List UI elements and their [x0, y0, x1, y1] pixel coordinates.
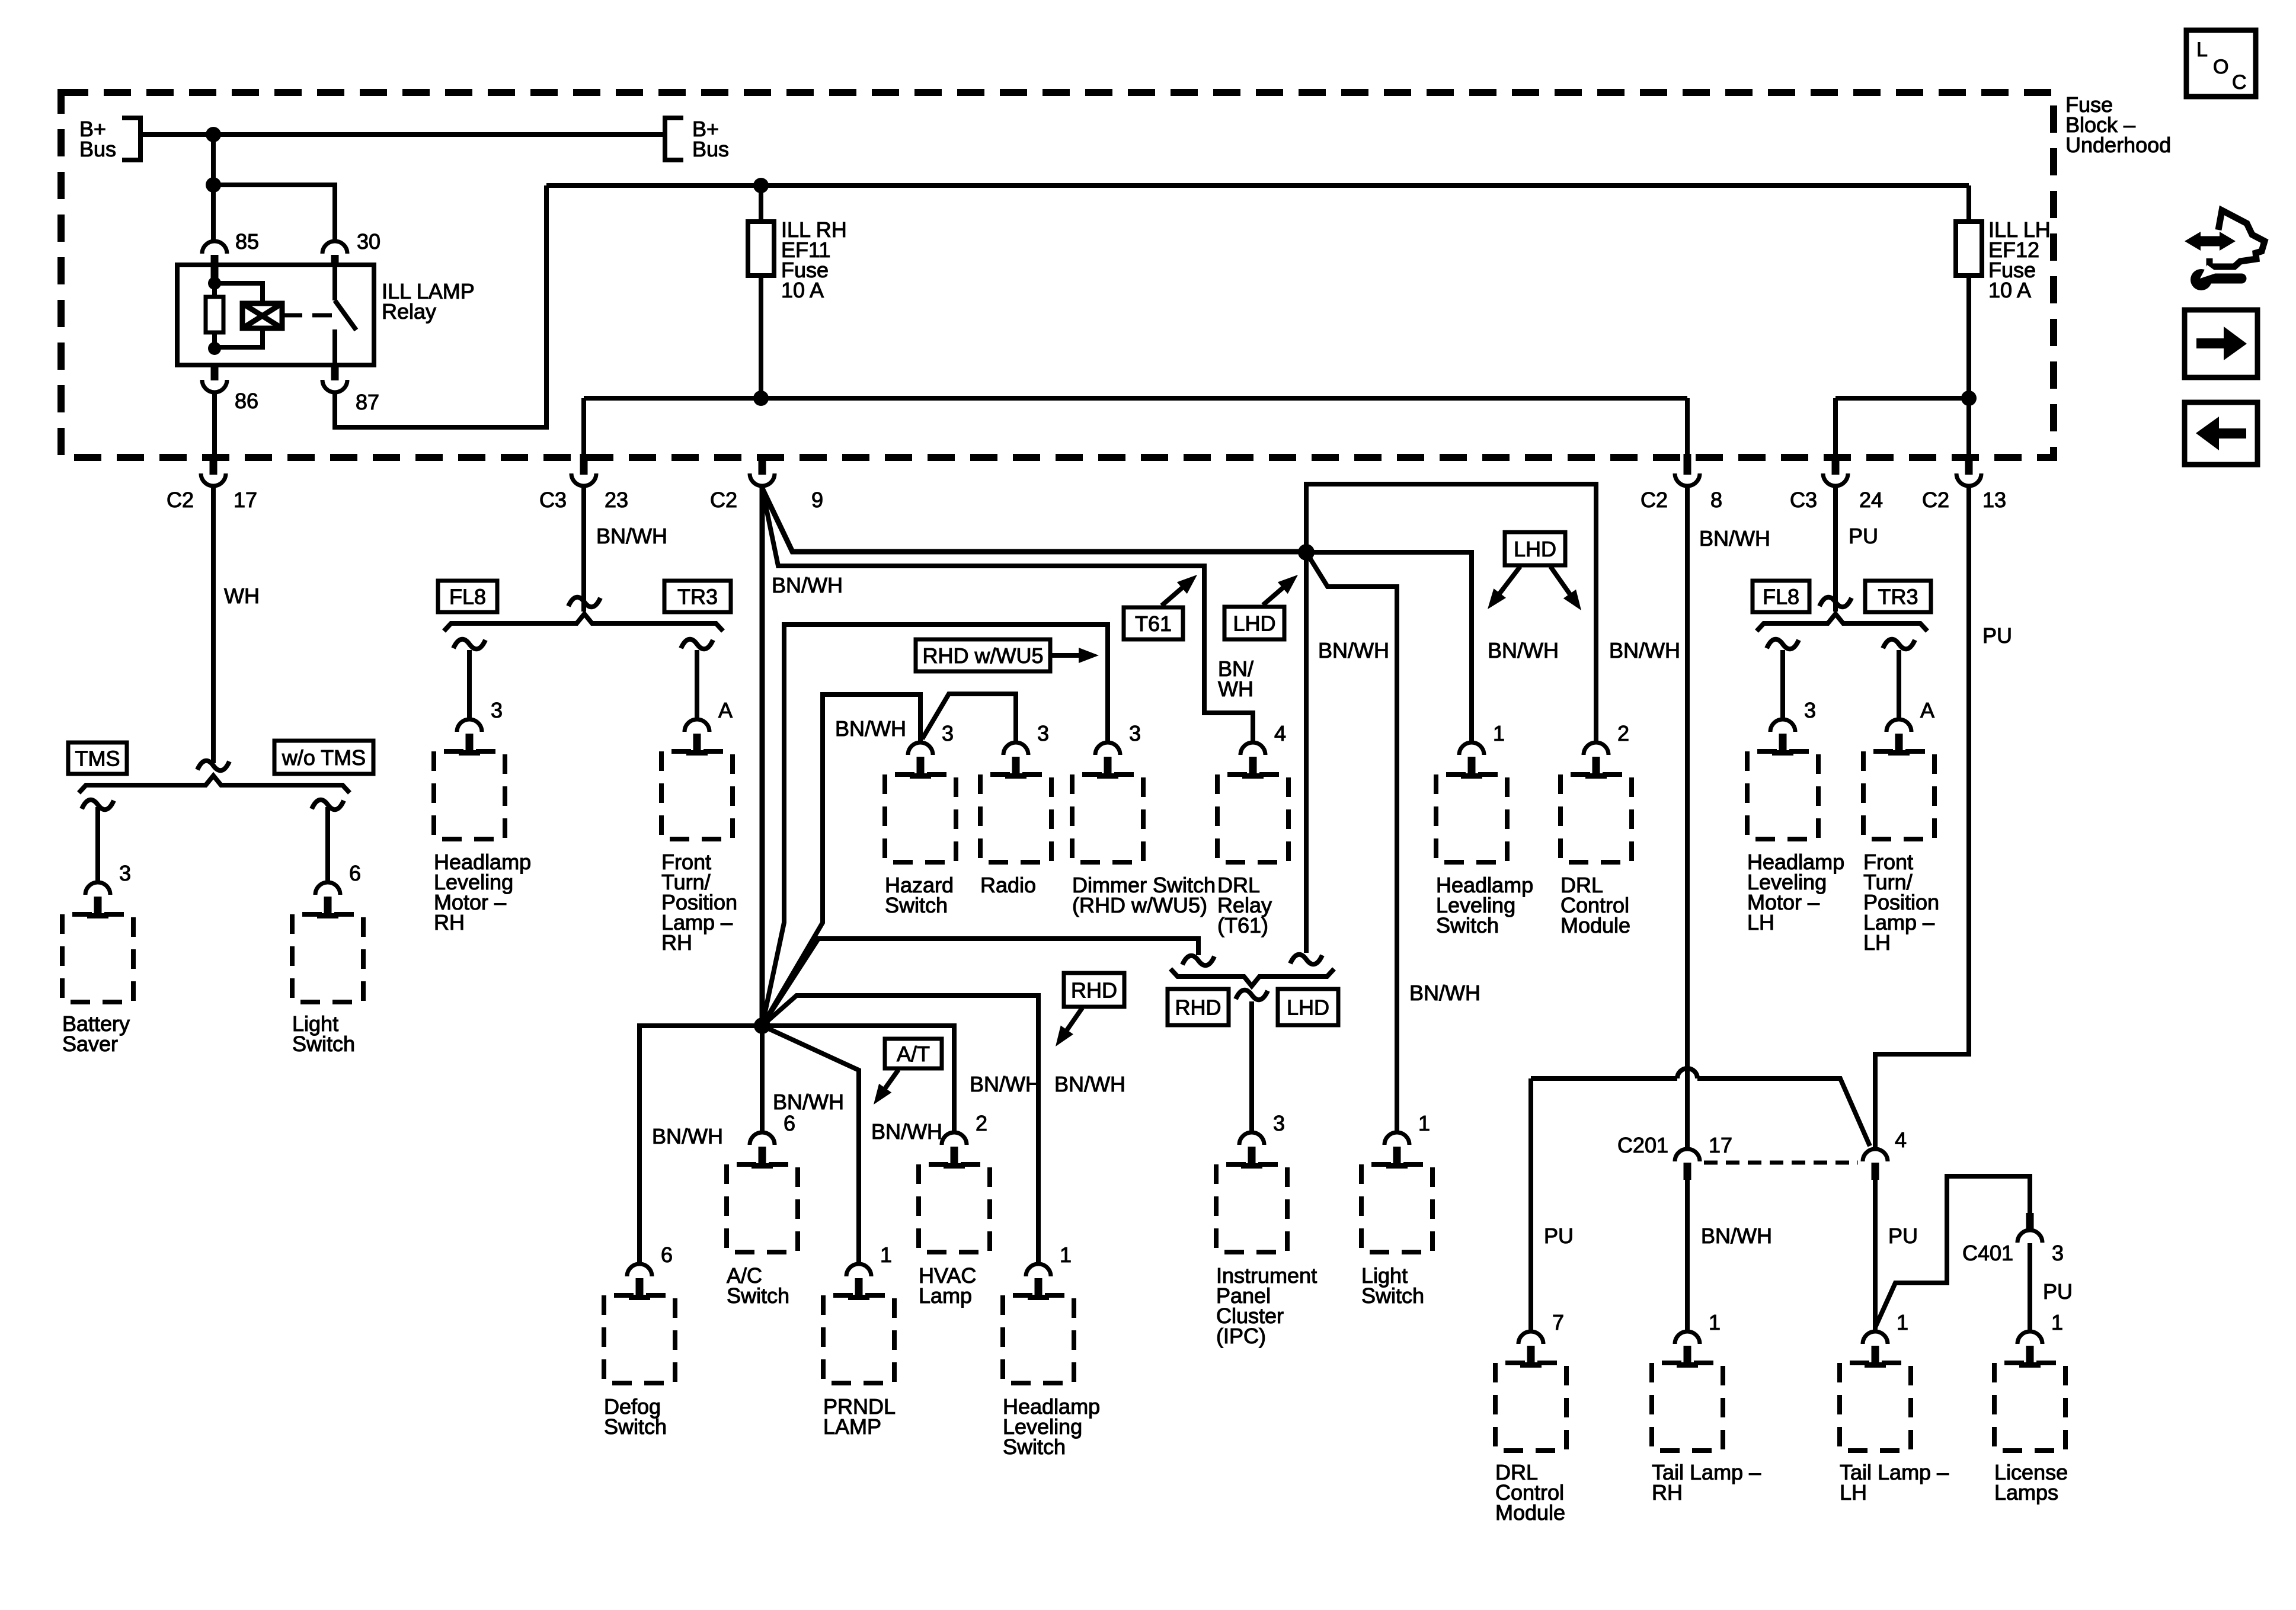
svg-text:A: A	[1920, 698, 1934, 722]
DRL control module bottom box	[1495, 1363, 1566, 1451]
connector C2 pin 17	[210, 454, 218, 475]
svg-text:3: 3	[119, 861, 131, 885]
svg-text:(T61): (T61)	[1217, 913, 1268, 937]
fuse ILL LH EF12 10A	[1966, 185, 1971, 222]
svg-text:3: 3	[2052, 1241, 2064, 1265]
node junction B+ to relay	[206, 127, 221, 142]
arrow box left	[2185, 402, 2257, 465]
svg-text:RHD: RHD	[1071, 978, 1117, 1003]
svg-text:Module: Module	[1560, 913, 1630, 937]
connector PRNDL lamp pin 1	[846, 1264, 871, 1276]
dashed link C201 to tail lamp LH pin 4	[1704, 1161, 1858, 1165]
svg-text:LH: LH	[1840, 1480, 1867, 1505]
connector light switch pin 1	[1384, 1132, 1409, 1145]
defog switch box	[604, 1295, 675, 1383]
wire license lamps branch	[1875, 1176, 2030, 1327]
relay mechanical link dashed	[282, 313, 332, 318]
connector radio pin 3	[1003, 742, 1028, 755]
wire junction to headlamp leveling switch pin 1	[1306, 552, 1472, 742]
svg-text:Saver: Saver	[62, 1032, 118, 1056]
connector C2 pin 13	[1965, 454, 1973, 475]
connector front turn position lamp RH pin A	[685, 719, 709, 732]
wire star to HVAC lamp	[762, 1026, 954, 1132]
svg-text:C2: C2	[1922, 488, 1949, 512]
svg-text:C3: C3	[1790, 488, 1817, 512]
connector tail lamp LH pin 1	[1863, 1331, 1888, 1344]
svg-text:Radio: Radio	[980, 873, 1036, 897]
wire to front turn lamp RH pin A	[695, 650, 699, 719]
svg-text:LH: LH	[1863, 930, 1891, 955]
connector A/C switch pin 6	[750, 1132, 775, 1145]
wire to front turn lamp LH pin A	[1897, 650, 1901, 719]
relay ILL LAMP box	[177, 265, 374, 365]
svg-text:PU: PU	[1888, 1224, 1918, 1248]
wire to motor LH pin 3	[1780, 650, 1785, 719]
relay coil node lower	[208, 342, 221, 355]
svg-text:1: 1	[1709, 1310, 1721, 1334]
relay ILL LAMP pin 30	[322, 241, 347, 254]
svg-text:3: 3	[1273, 1111, 1285, 1135]
wire EF12 to C2-13	[1966, 398, 1971, 455]
svg-text:3: 3	[942, 721, 954, 745]
svg-text:8: 8	[1710, 488, 1722, 512]
svg-text:TR3: TR3	[1878, 585, 1918, 609]
svg-text:1: 1	[1493, 721, 1505, 745]
curl output front turn lamp RH	[681, 639, 713, 649]
svg-text:1: 1	[2051, 1310, 2063, 1334]
brace split TMS options	[79, 776, 350, 793]
svg-text:3: 3	[1129, 721, 1141, 745]
vehicle wiring icon	[2185, 210, 2265, 290]
svg-text:w/o TMS: w/o TMS	[282, 745, 366, 770]
star junction node	[754, 1017, 770, 1034]
svg-text:PU: PU	[1544, 1224, 1574, 1248]
wire to instrument panel cluster pin 3	[1249, 1001, 1254, 1132]
svg-text:13: 13	[1982, 488, 2006, 512]
connector C2 pin 9	[759, 454, 766, 475]
svg-text:BN/WH: BN/WH	[835, 716, 906, 741]
connector headlamp leveling switch bottom pin 1	[1026, 1264, 1051, 1276]
connector C3 pin 23	[580, 454, 588, 475]
curl IPC output	[1236, 990, 1268, 1000]
dimmer switch box	[1072, 774, 1143, 862]
LOC reference box	[2186, 30, 2256, 97]
DRL control module box	[1560, 774, 1632, 862]
svg-text:6: 6	[661, 1243, 673, 1267]
callout RHD with arrow bottom	[1064, 973, 1124, 1007]
wire WH from C2-17	[211, 486, 216, 763]
headlamp leveling motor LH box	[1747, 751, 1818, 839]
svg-text:4: 4	[1895, 1128, 1907, 1152]
svg-text:1: 1	[1060, 1243, 1072, 1267]
wire B+ down to relay pin 85	[211, 135, 216, 241]
svg-text:BN/WH: BN/WH	[1488, 638, 1559, 662]
connector headlamp leveling switch pin 1	[1459, 742, 1484, 755]
wire PU from C2-13 to tail lamp LH pin 4	[1875, 486, 1969, 1149]
relay coil node upper	[208, 277, 221, 290]
wire B+ bus horizontal	[140, 132, 665, 137]
svg-text:24: 24	[1859, 488, 1883, 512]
curl FL8-TR3 left input	[568, 597, 600, 607]
svg-text:9: 9	[811, 488, 823, 512]
svg-text:C2: C2	[710, 488, 737, 512]
fuse ILL RH EF11 10A	[759, 185, 763, 222]
wire relay 87 to fuses line A	[335, 185, 546, 427]
wire fan to junction dot BN/WH main	[762, 488, 1306, 552]
PRNDL lamp box	[823, 1295, 894, 1383]
relay coil branch wire	[215, 283, 263, 303]
svg-text:Switch: Switch	[292, 1032, 355, 1056]
svg-text:1: 1	[1418, 1111, 1430, 1135]
B+ bus terminal left	[122, 116, 140, 162]
node EF11 tap	[753, 178, 769, 193]
A/C switch box	[727, 1164, 798, 1252]
wire BN/WH vertical to IPC brace right input	[1304, 552, 1309, 953]
wire star to A/C switch	[760, 1026, 765, 1132]
HVAC lamp box	[919, 1164, 990, 1252]
wire to light switch pin 6	[325, 807, 330, 882]
tail lamp RH box	[1652, 1363, 1723, 1451]
svg-text:BN/WH: BN/WH	[1701, 1224, 1772, 1248]
svg-text:TMS: TMS	[75, 747, 120, 771]
svg-text:TR3: TR3	[677, 585, 718, 609]
svg-text:Relay: Relay	[382, 299, 436, 324]
svg-text:C2: C2	[167, 488, 194, 512]
svg-text:Bus: Bus	[79, 137, 116, 161]
wire PU pin4 to tail lamp LH pin 1	[1873, 1180, 1878, 1331]
tail lamp LH box	[1840, 1363, 1911, 1451]
svg-text:PU: PU	[2043, 1279, 2073, 1304]
front turn position lamp LH box	[1863, 751, 1934, 839]
wire star to dimmer switch loop	[762, 625, 1108, 1026]
svg-text:BN/WH: BN/WH	[1318, 638, 1389, 662]
svg-text:C2: C2	[1641, 488, 1668, 512]
svg-text:BN/WH: BN/WH	[652, 1124, 723, 1148]
callout w/o TMS	[274, 741, 373, 774]
svg-text:17: 17	[234, 488, 257, 512]
relay ILL LAMP pin 85	[202, 241, 227, 254]
connector hazard switch pin 3	[908, 742, 933, 755]
svg-text:2: 2	[976, 1111, 987, 1135]
connector DRL control module pin 7	[1518, 1331, 1543, 1344]
connector C401 pin 3 inline	[2026, 1213, 2034, 1230]
wire star to IPC brace left input	[762, 939, 1198, 1026]
brace split FL8/TR3 left	[444, 614, 723, 631]
svg-text:BN/WH: BN/WH	[970, 1072, 1041, 1096]
wire line B right to C3-24	[1835, 398, 1969, 455]
node EF12 output	[1961, 391, 1977, 406]
callout LHD with arrow to junction	[1224, 607, 1284, 639]
connector light switch pin 6	[315, 882, 340, 895]
curl TMS output left	[82, 800, 114, 809]
wire junction diagonal to light switch	[1306, 552, 1397, 1132]
svg-text:T61: T61	[1135, 612, 1172, 636]
connector C3 pin 24	[1832, 454, 1840, 475]
B+ bus terminal right	[665, 116, 683, 162]
svg-text:BN/WH: BN/WH	[1699, 526, 1770, 550]
svg-text:RH: RH	[661, 930, 692, 955]
wire C2-9 spine to star junction	[760, 486, 765, 1026]
svg-text:FL8: FL8	[449, 585, 486, 609]
wire to battery saver	[95, 807, 100, 882]
battery saver box	[62, 914, 133, 1002]
relay pin 86	[211, 365, 219, 380]
callout TMS	[68, 742, 127, 774]
resistor relay internal	[212, 283, 217, 297]
connector tail lamp LH pin 4 inline	[1863, 1149, 1888, 1161]
callout LHD double arrow	[1505, 532, 1565, 565]
light switch mid box	[1361, 1164, 1432, 1252]
curl output front turn lamp LH	[1883, 639, 1915, 649]
relay pin 87	[331, 365, 339, 380]
svg-text:Switch: Switch	[1436, 913, 1499, 937]
svg-text:Module: Module	[1495, 1500, 1565, 1525]
wire star to hazard switch	[762, 694, 920, 1026]
callout T61 with arrow	[1124, 607, 1183, 639]
svg-text:O: O	[2213, 56, 2228, 78]
connector headlamp leveling motor RH pin 3	[457, 719, 482, 732]
svg-text:RH: RH	[434, 910, 465, 934]
wire star to defog switch	[639, 1026, 762, 1264]
radio box	[980, 774, 1051, 862]
svg-text:LH: LH	[1747, 910, 1774, 934]
connector defog switch pin 6	[627, 1264, 652, 1276]
svg-text:4: 4	[1274, 721, 1286, 745]
svg-text:6: 6	[349, 861, 361, 885]
wire PU from C3-24	[1833, 486, 1838, 612]
svg-text:3: 3	[491, 698, 503, 722]
svg-text:85: 85	[235, 229, 259, 254]
svg-text:LHD: LHD	[1233, 612, 1275, 636]
svg-text:Switch: Switch	[727, 1283, 789, 1308]
wire PU C401 to license lamps	[2028, 1243, 2032, 1331]
node junction to pin 30	[206, 177, 221, 193]
svg-text:BN/WH: BN/WH	[773, 1090, 844, 1114]
curl FL8-TR3 right input	[1819, 597, 1851, 607]
svg-text:10 A: 10 A	[781, 278, 824, 302]
svg-text:3: 3	[1804, 698, 1816, 722]
label Fuse Block - Underhood	[2065, 92, 2171, 157]
node EF11 output	[753, 391, 769, 406]
svg-text:LAMP: LAMP	[823, 1414, 881, 1439]
svg-text:FL8: FL8	[1763, 585, 1799, 609]
svg-text:Switch: Switch	[604, 1414, 667, 1439]
node junction BN/WH distribution	[1298, 544, 1315, 561]
svg-text:(IPC): (IPC)	[1216, 1324, 1266, 1348]
svg-text:A/T: A/T	[897, 1042, 930, 1066]
svg-text:WH: WH	[1218, 677, 1253, 701]
callout FL8 right	[1753, 581, 1809, 612]
connector DRL relay pin 4	[1240, 742, 1265, 755]
instrument panel cluster box	[1216, 1164, 1287, 1252]
connector IPC pin 3	[1239, 1132, 1264, 1145]
light switch box	[292, 914, 363, 1002]
wire hazard to radio	[922, 694, 1016, 742]
svg-text:PU: PU	[1849, 524, 1878, 548]
svg-text:2: 2	[1617, 721, 1629, 745]
svg-text:3: 3	[1037, 721, 1049, 745]
wire relay 86 to C2-17	[212, 392, 217, 454]
svg-text:BN/WH: BN/WH	[1054, 1072, 1125, 1096]
callout A/T with arrow	[885, 1039, 942, 1068]
svg-text:7: 7	[1552, 1310, 1564, 1334]
svg-text:1: 1	[1897, 1310, 1908, 1334]
connector DRL control module pin 2	[1584, 742, 1609, 755]
license lamps box	[1994, 1363, 2065, 1451]
wire line B to C3-23	[581, 398, 586, 455]
relay switch	[332, 265, 337, 300]
wire BN/WH from C3-23	[581, 486, 586, 612]
connector tail lamp RH pin 1	[1675, 1331, 1700, 1344]
wire branch to relay pin 30	[213, 185, 335, 241]
wire line B fused output left	[584, 396, 1687, 401]
callout RHD w/WU5 with arrow	[916, 639, 1050, 671]
brace merge RHD/LHD to IPC	[1171, 969, 1334, 986]
svg-text:BN/WH: BN/WH	[871, 1119, 942, 1144]
svg-text:Lamp: Lamp	[919, 1283, 972, 1308]
svg-text:C3: C3	[539, 488, 567, 512]
connector HVAC lamp pin 2	[942, 1132, 967, 1145]
wire C201 to tail lamp RH pin 1	[1685, 1180, 1690, 1331]
callout TR3 right	[1865, 581, 1931, 612]
callout FL8 left	[438, 581, 497, 612]
wire junction up-over to DRL control module pin 2	[1306, 484, 1596, 742]
svg-text:BN/WH: BN/WH	[1609, 638, 1680, 662]
svg-text:30: 30	[357, 229, 380, 254]
callout LHD mid	[1278, 989, 1338, 1025]
svg-text:C401: C401	[1962, 1241, 2013, 1265]
svg-text:Underhood: Underhood	[2065, 133, 2171, 157]
svg-text:Lamps: Lamps	[1994, 1480, 2058, 1505]
arrow box right	[2185, 310, 2257, 377]
svg-text:RH: RH	[1652, 1480, 1683, 1505]
hazard switch box	[885, 774, 956, 862]
svg-text:BN/WH: BN/WH	[772, 573, 843, 597]
curl split input TMS	[197, 761, 229, 770]
svg-text:LHD: LHD	[1514, 537, 1556, 561]
callout TR3 left	[664, 581, 731, 612]
svg-text:BN/WH: BN/WH	[1409, 981, 1480, 1005]
wire PU horizontal to DRL module with hop over BN/WH	[1531, 1076, 1677, 1081]
wire PU down to DRL control module pin 7	[1528, 1078, 1533, 1331]
connector C201 pin 17	[1675, 1149, 1700, 1161]
fuse block - underhood dashed border	[61, 92, 2054, 457]
relay coil symbol	[242, 303, 282, 328]
curl IPC brace right input	[1290, 955, 1322, 964]
svg-text:BN/WH: BN/WH	[596, 524, 667, 548]
headlamp leveling switch box	[1436, 774, 1507, 862]
connector battery saver pin 3	[85, 882, 110, 895]
svg-text:C201: C201	[1617, 1133, 1668, 1157]
svg-text:Switch: Switch	[1361, 1283, 1424, 1308]
brace split FL8/TR3 right	[1757, 614, 1927, 631]
svg-text:1: 1	[880, 1243, 892, 1267]
svg-text:L: L	[2196, 39, 2208, 61]
svg-text:87: 87	[356, 390, 379, 414]
svg-text:Bus: Bus	[692, 137, 729, 161]
callout RHD mid	[1168, 989, 1229, 1025]
wire fan to DRL relay pin 4	[762, 488, 1253, 742]
curl output headlamp leveling motor RH	[453, 639, 485, 649]
wire star to headlamp leveling switch bottom	[762, 996, 1038, 1264]
svg-text:C: C	[2232, 71, 2247, 94]
headlamp leveling switch bottom box	[1003, 1295, 1074, 1383]
wire C2-8 drop inside fuse block	[1685, 398, 1690, 455]
svg-text:23: 23	[605, 488, 628, 512]
wire BN/WH C2-8 to C201	[1685, 486, 1690, 1149]
DRL relay box	[1217, 774, 1288, 862]
connector license lamps pin 1	[2017, 1331, 2042, 1344]
curl output headlamp leveling motor LH	[1767, 639, 1799, 649]
svg-text:Switch: Switch	[1003, 1435, 1066, 1459]
svg-text:RHD: RHD	[1175, 996, 1221, 1020]
curl IPC brace left input	[1182, 956, 1214, 965]
svg-text:RHD w/WU5: RHD w/WU5	[923, 644, 1044, 668]
svg-text:10 A: 10 A	[1988, 278, 2031, 302]
svg-text:Switch: Switch	[885, 893, 948, 917]
wire to motor RH pin 3	[467, 650, 472, 719]
svg-text:(RHD w/WU5): (RHD w/WU5)	[1072, 893, 1207, 917]
wire line A fuse feed	[546, 183, 1969, 188]
connector C2 pin 8	[1684, 454, 1691, 475]
svg-text:WH: WH	[224, 584, 260, 608]
svg-text:17: 17	[1709, 1133, 1732, 1157]
svg-text:86: 86	[235, 389, 258, 413]
svg-text:PU: PU	[1982, 623, 2012, 648]
connector headlamp leveling motor LH pin 3	[1770, 719, 1795, 732]
headlamp leveling motor RH box	[434, 751, 505, 839]
wire star to PRNDL lamp	[762, 1026, 859, 1264]
svg-text:6: 6	[784, 1111, 795, 1135]
svg-text:LHD: LHD	[1287, 996, 1329, 1020]
connector dimmer switch pin 3	[1095, 742, 1120, 755]
connector front turn position lamp LH pin A	[1886, 719, 1911, 732]
curl TMS output right	[312, 800, 344, 809]
svg-text:A: A	[718, 698, 733, 722]
front turn position lamp RH box	[661, 751, 733, 839]
